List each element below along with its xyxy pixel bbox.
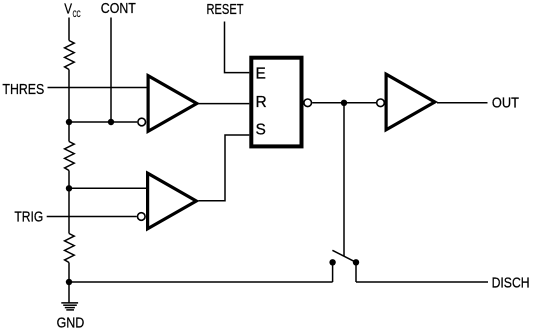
svg-text:S: S	[256, 121, 266, 138]
svg-text:TRIG: TRIG	[14, 209, 43, 226]
svg-text:RESET: RESET	[207, 1, 244, 18]
svg-text:DISCH: DISCH	[492, 274, 530, 291]
svg-text:OUT: OUT	[492, 95, 519, 112]
svg-text:CC: CC	[73, 9, 81, 19]
svg-text:R: R	[256, 94, 267, 111]
svg-text:E: E	[256, 66, 266, 83]
svg-text:CONT: CONT	[101, 0, 136, 17]
svg-text:GND: GND	[57, 315, 85, 331]
svg-text:THRES: THRES	[2, 81, 44, 98]
svg-text:V: V	[64, 0, 72, 17]
